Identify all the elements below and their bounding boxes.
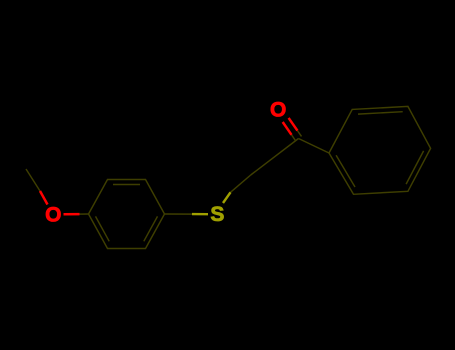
bond S-C2 sulfur half xyxy=(223,192,231,203)
ring 1 inner double bond top xyxy=(113,184,140,186)
wire: methyl C-H3 to O bond (carbon half) xyxy=(26,106,431,248)
ring 2 inner double bond top xyxy=(358,112,403,114)
bond O-ring oxygen half xyxy=(64,213,80,216)
bond ring1-S carbon half xyxy=(165,213,193,215)
bond ring1-S sulfur half xyxy=(192,213,208,215)
bond C2-C1 xyxy=(251,139,299,176)
ring 1 inner double bond lower-right xyxy=(144,216,158,241)
C=O double bond carbon halves xyxy=(297,131,301,137)
bond CH3-O oxygen half xyxy=(40,191,48,205)
bond O-ring carbon half xyxy=(80,213,89,215)
bond C1-ring2 xyxy=(299,139,330,154)
bond CH3-O carbon half xyxy=(26,169,40,191)
svg-text:S: S xyxy=(210,203,224,226)
ring 1 inner double bond lower-left xyxy=(96,216,110,241)
bond S-C2 carbon half xyxy=(231,175,251,192)
ring 2 inner double bond right xyxy=(406,151,424,184)
svg-text:O: O xyxy=(45,204,61,227)
svg-text:O: O xyxy=(270,99,286,122)
C=O double bond oxygen halves xyxy=(289,118,298,131)
sulfur half-bonds xyxy=(192,192,231,214)
benzene ring 1 (4-methoxyphenyl) outline xyxy=(89,180,165,249)
ring 2 inner double bond lower-left xyxy=(336,155,355,187)
red oxygen half-bonds xyxy=(40,118,297,214)
benzene ring 2 (phenyl) outline xyxy=(329,106,431,194)
